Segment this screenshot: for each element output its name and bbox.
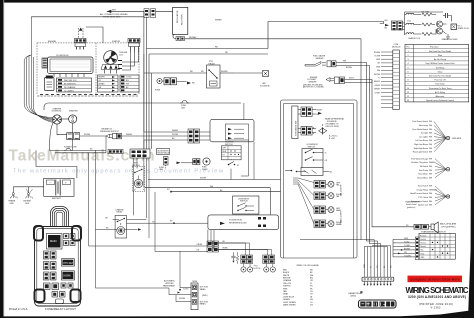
svg-text:GRAY: GRAY [283,293,289,296]
svg-text:FROM WIRE SIDE: FROM WIRE SIDE [103,17,121,19]
com module wires left [374,52,393,108]
svg-text:BK/WH: BK/WH [404,248,411,250]
scan border bottom [0,310,474,318]
engine dashed box [37,40,139,95]
mid vertical drops [89,136,106,288]
svg-text:SENDER: SENDER [316,58,325,60]
svg-text:TERM: TERM [192,281,198,283]
svg-text:Right High Beam: Right High Beam [414,147,429,150]
svg-text:Speed Limiter Solenoid Control: Speed Limiter Solenoid Control [426,99,454,102]
fan-out harness node 2 [411,158,449,179]
svg-text:RD/WH: RD/WH [374,52,381,54]
svg-text:PUMP: PUMP [202,169,208,171]
fan-out harness node 1 [412,120,462,153]
svg-text:+: + [65,181,67,185]
svg-text:BATTERY: BATTERY [52,197,62,200]
wires into ignition connector [380,20,389,30]
transistor Q1 [437,21,443,27]
svg-text:RD/WH: RD/WH [200,178,207,180]
svg-text:Low Lights: Low Lights [419,135,428,138]
ignition coil L1 [405,13,422,14]
ECU side connector [42,58,48,68]
svg-text:Fuel Status Switch: Fuel Status Switch [412,120,428,123]
fuse panel caption [45,307,76,311]
svg-text:LIGHT GREEN: LIGHT GREEN [283,302,296,304]
fuse F1 [67,133,73,140]
ignition module connector [392,21,405,30]
svg-text:10K OHM: 10K OHM [421,11,429,13]
svg-text:ALL CONNECTORS VIEWED: ALL CONNECTORS VIEWED [100,13,128,16]
svg-text:ACG Relay: ACG Relay [435,91,445,94]
svg-text:Fuel Cut Off: Fuel Cut Off [435,79,446,82]
frame ground [9,193,18,205]
main harness connector strip [362,277,394,281]
solenoid down wire [50,123,73,150]
tow valve connector strip [292,106,298,139]
resistor R3 [408,29,436,40]
svg-text:Switch Detail: Switch Detail [406,203,417,206]
svg-text:GY/BK: GY/BK [375,92,381,94]
svg-text:3200 (S/N AJNE11001 AND ABOVE): 3200 (S/N AJNE11001 AND ABOVE) [408,295,466,299]
svg-text:PLUG/MOW IN: PLUG/MOW IN [229,220,243,222]
svg-text:(4WD): (4WD) [351,296,357,298]
svg-text:LIGHT BLUE: LIGHT BLUE [283,296,295,298]
svg-text:PARK BRAKE: PARK BRAKE [163,284,176,287]
svg-text:RD/WH: RD/WH [84,134,91,136]
svg-text:ENGINE: ENGINE [48,41,57,43]
rotor side label [119,52,128,56]
fuse panel body [35,227,81,307]
svg-text:Left Low Beam: Left Low Beam [415,139,428,142]
svg-text:SOLENOID: SOLENOID [260,85,270,87]
svg-text:OR/BK: OR/BK [374,85,380,87]
ribbon wires down [364,240,392,278]
svg-text:Rectifier / Regulator: Rectifier / Regulator [411,161,428,164]
wire arrow WH top left [107,9,144,13]
wire key feed bundle verticals [144,11,152,149]
svg-text:Accessory: Accessory [419,124,428,127]
back-up alarm [372,218,457,233]
cluster connector pair [188,129,210,143]
ECU block [48,55,94,73]
ignition coil cylinder [45,76,55,91]
fuse holder circle [155,78,195,92]
svg-text:MAIN: MAIN [50,239,57,243]
svg-text:YL/GRN: YL/GRN [404,255,411,257]
svg-text:RED: RED [283,269,288,271]
label all connectors viewed [100,13,128,19]
svg-text:WH/BK: WH/BK [126,134,133,136]
transmission connector stack [197,241,219,252]
wire top bus y=16.8 [31,16,144,18]
svg-text:PURPLE: PURPLE [283,286,291,288]
instrument cluster box [210,103,254,142]
svg-text:FUSE/RELAY LAYOUT: FUSE/RELAY LAYOUT [45,307,76,311]
svg-text:Ignition Coil: Ignition Coil [418,204,428,207]
pto clutch coil A [241,264,253,273]
capacitor resistor drop [231,252,238,264]
svg-text:BROWN: BROWN [283,278,291,280]
svg-text:Wait: Wait [438,54,442,57]
regulator output connector [173,34,197,40]
svg-text:WH FUEL SOL: WH FUEL SOL [64,80,77,82]
seat-governor switch box [302,149,328,170]
lamp group 4 [314,210,343,227]
fuse panel horn relay [61,271,74,280]
svg-text:PINK: PINK [283,288,288,290]
fuel pump motor [202,158,210,171]
svg-text:RD/WH: RD/WH [179,298,186,300]
fuse panel fuse column [44,251,57,280]
svg-text:GRN WIRE: GRN WIRE [452,138,462,140]
terminal block labels [200,287,208,306]
svg-text:YL/WH: YL/WH [404,245,410,247]
svg-text:Fuel Volume/Gauge: Fuel Volume/Gauge [411,158,428,160]
ECU bottom pins [54,74,84,78]
watermark subtitle [13,169,224,175]
red banner [408,276,463,283]
engine fuse table [57,78,92,93]
key switch contacts [228,159,240,180]
svg-text:OR/BK: OR/BK [222,248,228,250]
svg-text:HORN: HORN [64,275,71,278]
engine ground [24,193,33,205]
radiator fan label [349,291,364,298]
scan border top [0,0,474,3]
scan border right [468,0,474,318]
svg-text:WH/BK: WH/BK [172,130,179,132]
svg-text:WHITE: WHITE [283,275,290,277]
svg-text:COIL: COIL [119,54,123,56]
svg-text:SWITCH: SWITCH [240,201,248,203]
svg-text:YELLOW: YELLOW [283,283,291,285]
fan-out harness node 3 [410,185,450,207]
svg-text:YL: YL [310,283,312,285]
printed in usa [9,307,28,311]
svg-text:RD CHARGE: RD CHARGE [64,86,76,89]
connector pin arrows [363,281,391,286]
svg-text:YL/RD: YL/RD [126,77,132,79]
spark ground label [442,34,459,41]
svg-text:GREEN: GREEN [283,299,290,301]
svg-text:DARK GREEN: DARK GREEN [283,304,296,307]
svg-text:BK/WH: BK/WH [346,67,353,69]
svg-text:STATOR: STATOR [112,40,121,43]
long wire y179.5 [148,178,281,180]
svg-text:GRN: GRN [376,59,381,61]
scan border left [0,0,4,318]
svg-text:Drive Mode Switch: Drive Mode Switch [412,128,428,131]
doc number [431,306,442,310]
fuse panel handle [51,207,69,233]
fuse panel pto relay [61,259,74,266]
svg-text:PTO RLY: PTO RLY [64,262,74,265]
long wire y187.7 [144,186,271,215]
svg-text:RECEPTACLE: RECEPTACLE [158,152,171,155]
lamp group 1 [314,181,341,189]
subtitle model [408,295,466,299]
stator coil wires [103,33,139,70]
svg-text:RELAY: RELAY [117,211,124,214]
junction dots mid [285,170,306,173]
key switch panel [108,149,150,158]
svg-text:ABOVE FOR 2 CYLINDER): ABOVE FOR 2 CYLINDER) [303,86,324,89]
svg-text:YL/WH: YL/WH [374,55,380,57]
svg-text:BK/WH: BK/WH [374,74,381,76]
svg-text:COIL: COIL [407,21,411,23]
svg-text:Not Used For This Model: Not Used For This Model [429,75,452,78]
svg-text:PANEL: PANEL [200,303,206,306]
svg-text:Seat Switch: Seat Switch [418,185,428,188]
wire color legend [283,265,320,306]
fuse panel main relay [47,234,63,250]
svg-text:FUSE: FUSE [155,90,161,92]
accessory receptacle [157,149,171,155]
charge relay label [116,208,125,213]
svg-text:CDI MODULE: CDI MODULE [56,55,69,57]
transistor Q2 [437,24,447,34]
svg-text:Fwd Hi: Fwd Hi [421,239,427,241]
transmission connector pins [415,237,419,260]
svg-text:TAIL: TAIL [336,195,340,198]
connector J1 engine top [75,27,104,50]
cluster feed wires [144,54,188,150]
top right coil pack wiring [405,12,444,35]
diff wire code note [329,135,338,141]
svg-text:GRN: GRN [404,238,409,240]
svg-text:Key Off/Main Power Control Uni: Key Off/Main Power Control Unit [426,62,455,65]
ignition coil L2 [405,21,422,25]
lamp group 2 [314,184,343,199]
svg-text:BLACK: BLACK [283,271,290,274]
svg-text:B = BK: B = BK [329,138,335,140]
spark plug load box [451,24,469,30]
svg-text:SPARK PLUG: SPARK PLUG [458,27,470,30]
trigger connector arrows [101,65,120,74]
pto feed lines [89,230,272,250]
key switch assembly [132,163,145,192]
svg-text:TAIL LIGHTS: TAIL LIGHTS [340,184,343,196]
com module connector strip [393,50,400,110]
svg-text:PRESSURE SWITCH: PRESSURE SWITCH [100,131,119,133]
fuel gauge sender [305,55,369,69]
svg-text:YL/RD: YL/RD [183,289,189,291]
svg-text:SENDER: SENDER [309,82,318,84]
svg-text:A = RD/LC: A = RD/LC [329,135,338,138]
svg-text:(PRINTED JUNE 2010): (PRINTED JUNE 2010) [419,302,453,306]
pin function table [405,45,469,103]
battery feed wires [36,150,77,178]
governor switch label [307,144,319,148]
air solenoid [234,71,270,88]
svg-text:Alternator: Alternator [436,95,445,98]
pto clutch connector B [263,250,275,264]
connector J2 stator top [128,39,140,53]
svg-text:YL: YL [325,152,327,154]
pto relay box [201,61,234,88]
svg-text:RD/WH: RD/WH [172,134,179,136]
svg-text:PTO Clutch: PTO Clutch [418,196,428,199]
svg-text:(IF EQUIPPED): (IF EQUIPPED) [442,226,456,228]
connector pair top middle [144,9,173,18]
svg-text:YL: YL [378,78,380,80]
fuse F2 [74,133,106,140]
engine box hatch bottom [37,95,139,96]
svg-text:ORANGE: ORANGE [283,279,292,282]
svg-text:(pellet list): (pellet list) [407,206,416,209]
diff connector A [298,107,323,117]
svg-text:Head/Traction Switch: Head/Traction Switch [410,192,428,195]
coolant temp sender [303,77,372,89]
svg-text:Fuel Pump: Fuel Pump [419,170,428,172]
charge relay box [115,215,126,238]
svg-text:BK IGNITION: BK IGNITION [64,84,76,86]
svg-text:CHARGE COIL: CHARGE COIL [408,37,420,40]
lamp group 3 [314,206,342,214]
transmission note text [405,201,420,210]
svg-text:RD/BK: RD/BK [317,109,323,111]
svg-text:HEAD LIGHTS: HEAD LIGHTS [340,210,343,224]
key drop wires [134,150,150,238]
svg-text:TOW VALVE SW: TOW VALVE SW [294,121,297,136]
pto clutch connector A [241,243,253,264]
svg-text:CLUTCH: CLUTCH [253,268,261,270]
svg-text:Tail Relay: Tail Relay [436,67,445,69]
right bus wires [361,39,372,244]
park brake wire [96,192,208,302]
svg-text:Thermostat To Start Timer: Thermostat To Start Timer [428,87,451,90]
svg-text:Right Low Beam: Right Low Beam [414,143,428,146]
chassis box outer [281,100,358,258]
svg-text:REVERSE MODULE: REVERSE MODULE [229,222,247,224]
hydro connector block [359,300,397,308]
svg-text:Function: Function [430,46,439,49]
svg-text:WIRE COLOR LEGEND: WIRE COLOR LEGEND [297,265,320,267]
svg-text:WH/RD: WH/RD [374,81,381,83]
battery [44,178,74,200]
engine table right 1 [98,75,119,92]
interlock module box [208,215,279,230]
svg-text:BACK-UP ALARM: BACK-UP ALARM [440,223,457,226]
oil pressure switch [100,129,144,139]
svg-text:REGULATOR: REGULATOR [176,10,179,23]
bus bend to ribbon [300,240,391,246]
splice node wire y191.7 [167,189,281,192]
svg-text:TAN: TAN [283,290,287,293]
fuse link vertical connector [159,157,168,172]
fuse panel lower bits [44,283,74,304]
pto clutch label [253,266,261,270]
fuse panel corner posts [34,226,81,302]
ignition switch table [221,142,241,160]
voltage regulator box [173,7,188,34]
pto clutch coil B [264,264,276,273]
main harness rounded box top [44,103,241,110]
svg-text:YL: YL [371,266,373,268]
svg-text:MODULE: MODULE [392,46,401,48]
svg-text:(4WD): (4WD) [202,295,208,297]
svg-text:STARTER: STARTER [69,110,78,113]
svg-text:Tail Light: Tail Light [421,132,429,135]
svg-text:FUSIBLE LINK: FUSIBLE LINK [64,147,77,149]
transmission feed wires [393,238,415,257]
fusible link wires [50,147,107,153]
svg-text:TAIL: TAIL [336,184,340,187]
svg-text:OR/BK: OR/BK [197,244,203,246]
svg-text:V-1362: V-1362 [431,306,442,310]
diff lock solenoid symbol [319,124,327,135]
svg-text:Complete Version Click Here: Complete Version Click Here [410,278,460,282]
svg-text:GRD: GRD [10,203,15,205]
svg-text:Glow: Glow [438,71,443,73]
resistor R1 [421,11,436,16]
trigger rotor circle [104,51,118,65]
svg-text:GRD: GRD [25,203,30,205]
svg-text:Rev: Rev [421,250,424,252]
ignition coil L3 [405,33,422,34]
svg-text:PANEL: PANEL [200,288,206,291]
diff solenoid label [325,118,344,128]
battery ground wires [13,187,43,193]
starter solenoid [52,107,62,124]
lamp group wires fan [293,178,314,224]
printed date [419,302,453,306]
svg-text:Park: Park [421,252,425,255]
svg-text:WH/BK: WH/BK [429,162,436,164]
wire y48.5 run [147,20,384,49]
starter motor [62,110,79,123]
svg-text:Air Lift Clamp: Air Lift Clamp [434,58,447,61]
hour meter wire [127,221,208,224]
seat switch box lower [301,168,333,176]
svg-text:WH: WH [112,9,116,11]
svg-text:YL LIGHTS: YL LIGHTS [64,91,74,93]
svg-text:Hour Meter: Hour Meter [419,173,429,176]
fuel pump connector [177,159,200,165]
svg-text:Thermistor: Thermistor [435,83,445,86]
capacitor C1 [443,13,451,22]
svg-text:Not Used For This Model: Not Used For This Model [429,50,452,53]
wire regulator to right bus [185,38,362,40]
watermark TakeManuals.com [9,148,155,165]
fuse link bump [180,100,189,109]
chassis box inner [284,104,354,259]
svg-text:Printed in U.S.A.: Printed in U.S.A. [9,307,28,311]
charge relay wires [96,218,147,231]
svg-text:WH/RD: WH/RD [215,20,222,22]
svg-text:Position: Position [420,234,426,237]
svg-text:Tilt Switch: Tilt Switch [419,165,428,168]
com module label [392,44,401,48]
svg-text:Neutral: Neutral [421,245,427,248]
park brake label [163,280,176,288]
engine table right 2 [120,75,139,92]
resistor R2 [422,23,435,26]
svg-text:GRN: GRN [376,66,381,68]
svg-text:RECTIFIER: RECTIFIER [182,14,184,25]
title wiring schematic [406,286,469,295]
svg-text:Head Light Switch: Head Light Switch [413,151,428,154]
diff connector B [298,126,316,135]
svg-text:Ground Buss: Ground Buss [417,176,428,179]
wire pto relay feed y73 [144,71,207,73]
svg-text:RD/YL: RD/YL [349,78,354,80]
svg-text:Fwd Lo: Fwd Lo [421,243,427,245]
svg-text:WH/BK: WH/BK [374,89,381,91]
svg-text:Charge Relay: Charge Relay [416,188,428,191]
svg-text:UNLOCK DIFF): UNLOCK DIFF) [326,126,340,128]
svg-text:−: − [50,181,52,185]
